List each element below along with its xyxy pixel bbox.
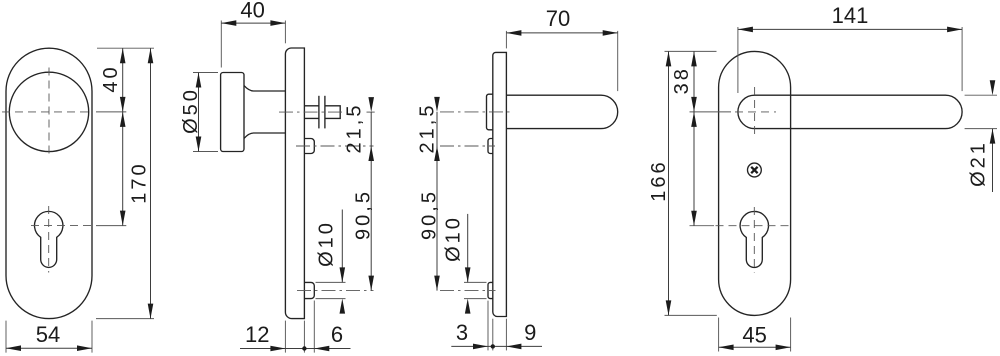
spindle centerline (dash-dot) <box>279 111 345 113</box>
dimension 40 line <box>122 48 124 112</box>
svg-text:Ø10: Ø10 <box>316 220 338 267</box>
dimension Ø10 line and arrows <box>341 210 343 283</box>
dimension knob-to-cylinder line (unlabeled) <box>122 112 124 226</box>
spindle boss (left side) <box>487 94 493 130</box>
cylinder centerline horizontal (dashed) <box>716 225 794 227</box>
extension line bottom edge <box>96 318 154 320</box>
dimension Ø10 extension lines <box>464 281 487 283</box>
dimension chain 21,5 / 90,5 line <box>370 112 372 291</box>
lever handle (front, stadium) <box>738 95 962 128</box>
bottom extension lines 12 / 6 <box>284 321 286 353</box>
dimension Ø21 line and arrows <box>992 129 994 192</box>
dimension 70 line <box>506 32 617 34</box>
plate side outline (rounded left corners) <box>493 52 507 316</box>
dimension 70 extension lines <box>505 31 507 49</box>
lower screw boss (side) <box>304 282 314 298</box>
dimension 45 line <box>719 346 791 348</box>
euro profile cylinder hole <box>740 211 768 267</box>
extension line bottom edge <box>665 314 717 316</box>
plate outline (stadium 54x170) <box>6 48 92 318</box>
svg-text:Ø10: Ø10 <box>443 215 465 262</box>
handle centerline vertical (dashed) <box>754 87 756 138</box>
knob face rect (Ø50 side) <box>221 73 244 152</box>
dimension 141 extension lines <box>737 27 739 93</box>
dimension 166 line <box>668 51 670 315</box>
dimension 12 / 6 line <box>240 348 351 350</box>
knob centerline vertical (dashed) <box>48 68 50 157</box>
cylinder centerline vertical (dashed) <box>753 207 755 273</box>
dimension 3 / 9 line <box>451 345 542 347</box>
euro profile cylinder hole <box>35 211 63 267</box>
dimension Ø50 extension lines <box>193 72 218 74</box>
dimension 40 extension lines <box>220 21 222 68</box>
svg-text:38: 38 <box>671 66 693 94</box>
handle centerline (dash-dot) <box>440 111 513 113</box>
svg-text:70: 70 <box>546 6 570 31</box>
knob circle Ø50 <box>9 72 88 151</box>
dimension chain 21,5 / 90,5 line <box>436 112 438 291</box>
cylinder centerline horizontal (dashed) <box>31 225 92 227</box>
svg-text:9: 9 <box>524 320 536 345</box>
knob neck bottom contour <box>244 133 286 138</box>
plate side outline (rounded front corners) <box>285 48 304 319</box>
dimension Ø10 extension lines <box>316 281 346 283</box>
knob centerline horizontal (dashed) <box>2 111 93 113</box>
lower boss centerline (dash-dot) <box>440 290 496 292</box>
extension line cylinder center <box>690 225 715 227</box>
svg-text:166: 166 <box>648 159 670 201</box>
svg-text:12: 12 <box>245 322 269 347</box>
svg-text:Ø50: Ø50 <box>180 87 202 134</box>
svg-text:90,5: 90,5 <box>419 189 441 240</box>
svg-text:141: 141 <box>832 3 869 28</box>
dimension 170 line <box>150 48 152 318</box>
extension line top edge <box>665 50 717 52</box>
svg-text:40: 40 <box>240 0 264 23</box>
dimension 40 line <box>221 22 285 24</box>
dimension 38 line <box>693 51 695 112</box>
lower boss centerline (dash-dot) <box>297 290 374 292</box>
extension line cylinder center <box>96 225 126 227</box>
svg-text:3: 3 <box>456 320 468 345</box>
extension line handle center <box>690 111 732 113</box>
svg-text:Ø21: Ø21 <box>968 140 990 187</box>
upper boss centerline (dash-dot) <box>296 145 374 147</box>
handle centerline horizontal (dashed) <box>735 111 776 113</box>
svg-text:21,5: 21,5 <box>417 103 439 154</box>
svg-text:45: 45 <box>742 323 766 348</box>
dimension 45 extension lines <box>718 318 720 352</box>
dimension Ø10 line and arrows <box>467 214 469 283</box>
extension line top edge <box>97 47 154 49</box>
lever handle (side) <box>506 95 617 128</box>
svg-text:90,5: 90,5 <box>353 189 375 240</box>
upper screw boss (side) <box>304 139 314 154</box>
lower screw boss (left side) <box>488 282 493 298</box>
spindle with screw (side) <box>304 106 340 119</box>
screw head symbol <box>748 163 762 177</box>
svg-text:170: 170 <box>129 161 151 203</box>
cylinder centerline vertical (dashed) <box>48 206 50 273</box>
svg-text:21,5: 21,5 <box>344 103 366 154</box>
upper boss centerline (dash-dot) <box>440 145 495 147</box>
bottom extension lines 3 / 9 <box>487 301 489 351</box>
dimension handle-to-cylinder line (unlabeled) <box>693 112 695 226</box>
dimension 141 line <box>738 28 962 30</box>
knob neck top contour <box>244 86 286 91</box>
extension line knob center <box>96 111 126 113</box>
dimension 54 extension lines <box>5 321 7 353</box>
dimension 54 line <box>6 347 92 349</box>
dimension Ø50 line <box>198 73 200 152</box>
plate outline (stadium 45x166) <box>719 51 791 315</box>
upper screw boss (left side) <box>488 139 493 154</box>
svg-text:54: 54 <box>36 322 60 347</box>
dimension Ø21 extension lines <box>965 94 997 96</box>
svg-text:40: 40 <box>100 64 122 92</box>
svg-text:6: 6 <box>331 322 343 347</box>
